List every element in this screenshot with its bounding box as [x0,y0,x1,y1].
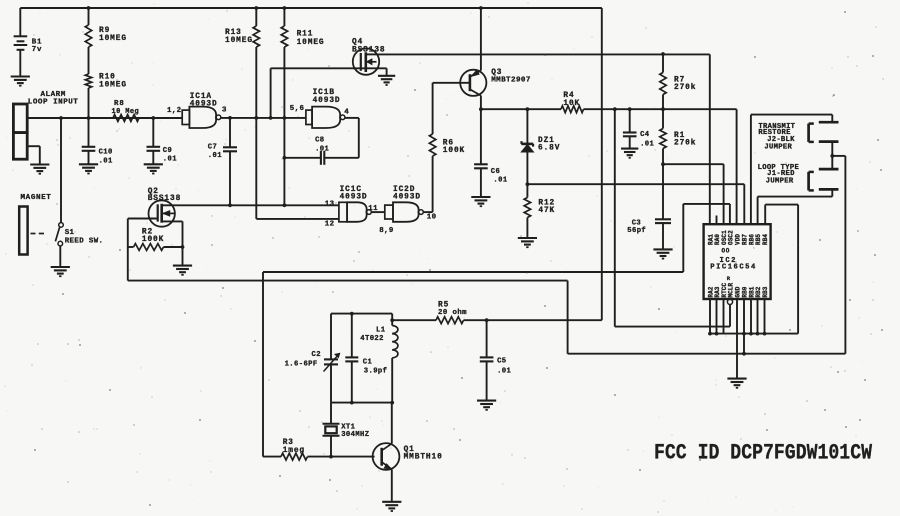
svg-text:C10: C10 [99,148,113,156]
svg-text:BSS138: BSS138 [352,46,385,54]
svg-text:R3: R3 [283,439,294,447]
svg-text:4T022: 4T022 [360,335,384,343]
svg-text:100K: 100K [443,147,465,155]
svg-text:270k: 270k [674,140,696,148]
svg-text:VDD: VDD [735,234,742,245]
svg-text:R9: R9 [99,27,110,35]
svg-text:PIC16C54: PIC16C54 [710,264,757,272]
svg-text:C9: C9 [163,147,172,155]
svg-text:Q3: Q3 [491,69,502,77]
svg-text:11: 11 [368,205,378,213]
svg-text:R8: R8 [114,100,125,108]
svg-text:3: 3 [222,106,227,114]
svg-text:LOOP INPUT: LOOP INPUT [28,99,79,107]
svg-text:JUMPER: JUMPER [766,177,794,185]
svg-text:JUMPER: JUMPER [764,143,792,151]
svg-text:R4: R4 [563,92,574,100]
svg-text:8,9: 8,9 [379,227,394,235]
svg-text:L1: L1 [376,326,386,334]
svg-text:R11: R11 [297,31,314,39]
svg-text:.01: .01 [208,152,222,160]
svg-text:4093D: 4093D [393,194,421,202]
svg-text:10: 10 [427,213,437,221]
svg-text:.01: .01 [497,367,511,375]
svg-text:1,2: 1,2 [167,107,182,115]
svg-text:6.8V: 6.8V [538,145,560,153]
svg-text:C8: C8 [315,137,324,145]
svg-text:C1: C1 [363,359,373,367]
svg-text:RB4: RB4 [762,234,769,245]
svg-text:7v: 7v [32,46,43,54]
svg-text:C7: C7 [208,143,217,151]
svg-text:MMBTH10: MMBTH10 [404,454,443,462]
svg-text:47K: 47K [538,207,555,215]
svg-text:Q1: Q1 [404,446,415,454]
svg-text:RA0: RA0 [714,234,721,245]
svg-text:5,6: 5,6 [290,105,305,113]
svg-text:OO: OO [722,247,730,254]
svg-text:MMBT2907: MMBT2907 [491,77,531,85]
svg-text:REED SW.: REED SW. [65,237,104,245]
svg-text:Q4: Q4 [352,39,363,47]
svg-text:MCLR: MCLR [728,282,735,297]
svg-text:3.9pf: 3.9pf [364,368,388,376]
svg-text:100K: 100K [142,236,164,244]
svg-text:BSS138: BSS138 [148,195,181,203]
svg-text:R13: R13 [225,29,242,37]
svg-text:C5: C5 [497,358,506,366]
svg-text:RB7: RB7 [742,234,749,245]
svg-text:1.6-6PF: 1.6-6PF [285,361,318,369]
svg-text:.01: .01 [640,140,654,148]
svg-text:20 ohm: 20 ohm [438,309,467,317]
svg-text:56pf: 56pf [627,227,646,235]
svg-text:304MHZ: 304MHZ [341,431,369,439]
svg-text:10K: 10K [563,100,580,108]
svg-text:XT1: XT1 [341,423,355,431]
svg-text:RB3: RB3 [762,286,769,297]
svg-text:FCC ID DCP7FGDW101CW: FCC ID DCP7FGDW101CW [654,440,872,466]
svg-text:13: 13 [325,200,335,208]
svg-text:4093D: 4093D [313,97,341,105]
svg-text:.01: .01 [493,176,507,184]
svg-text:270k: 270k [674,84,696,92]
svg-text:.01: .01 [99,157,113,165]
svg-text:.01: .01 [315,146,329,154]
svg-text:RB2: RB2 [755,286,762,297]
svg-text:S1: S1 [65,229,75,237]
svg-text:MAGNET: MAGNET [21,194,52,202]
svg-text:C6: C6 [491,168,500,176]
svg-text:GND: GND [735,286,742,297]
svg-text:10MEG: 10MEG [225,37,253,45]
svg-text:C2: C2 [312,351,321,359]
svg-text:C4: C4 [640,131,650,139]
svg-text:OSC2: OSC2 [728,230,735,245]
svg-text:4: 4 [344,108,349,116]
svg-text:4093D: 4093D [190,100,218,108]
svg-text:RA3: RA3 [714,286,721,297]
svg-text:RB5: RB5 [755,234,762,245]
svg-text:.01: .01 [163,156,177,164]
svg-text:10MEG: 10MEG [297,39,325,47]
svg-text:R10: R10 [99,74,116,82]
svg-text:10 Meg: 10 Meg [112,108,140,116]
svg-text:12: 12 [325,221,335,229]
svg-text:1meg: 1meg [283,447,305,455]
svg-text:4093D: 4093D [340,194,368,202]
svg-text:10MEG: 10MEG [99,82,127,90]
svg-text:RB0: RB0 [742,286,749,297]
